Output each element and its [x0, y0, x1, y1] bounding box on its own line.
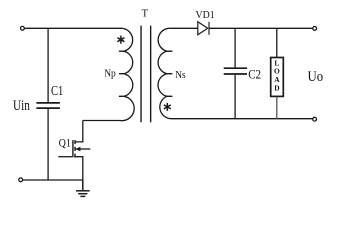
label LOAD — [274, 58, 280, 92]
terminal output + — [313, 27, 317, 31]
wire source — [75, 157, 83, 180]
gate bar — [72, 140, 74, 157]
terminal input - — [19, 178, 23, 182]
svg-text:Q1: Q1 — [59, 138, 72, 150]
ground — [76, 180, 90, 196]
capacitor C1 — [36, 28, 60, 180]
wire bottom-left rail — [23, 179, 83, 181]
svg-text:D: D — [274, 83, 279, 92]
svg-text:T: T — [142, 9, 149, 20]
svg-text:Np: Np — [104, 67, 116, 79]
svg-text:Ns: Ns — [175, 69, 185, 81]
polarity dot secondary (asterisk) — [164, 103, 171, 111]
wire drain — [75, 121, 83, 142]
wire diode to output — [209, 27, 313, 29]
terminal output - — [313, 117, 317, 121]
transistor Q1 (MOSFET) — [58, 121, 90, 181]
transformer T primary winding Np — [83, 28, 134, 120]
load resistor — [271, 28, 284, 118]
svg-text:C2: C2 — [248, 68, 261, 82]
svg-text:Uin: Uin — [13, 98, 30, 114]
polarity dot primary (asterisk) — [117, 36, 124, 44]
capacitor C2 — [224, 28, 247, 118]
transformer core — [141, 26, 151, 123]
terminal input + — [21, 26, 25, 30]
svg-text:C1: C1 — [51, 83, 63, 98]
svg-text:VD1: VD1 — [196, 9, 215, 21]
svg-text:Uo: Uo — [308, 69, 324, 85]
wire secondary to diode — [168, 27, 197, 29]
channel segments — [74, 140, 76, 144]
body arrow — [76, 148, 91, 150]
wire gate stub — [58, 156, 72, 158]
transformer secondary winding Ns — [158, 28, 313, 118]
wire top-left rail — [24, 27, 122, 29]
diode VD1 — [198, 22, 209, 35]
